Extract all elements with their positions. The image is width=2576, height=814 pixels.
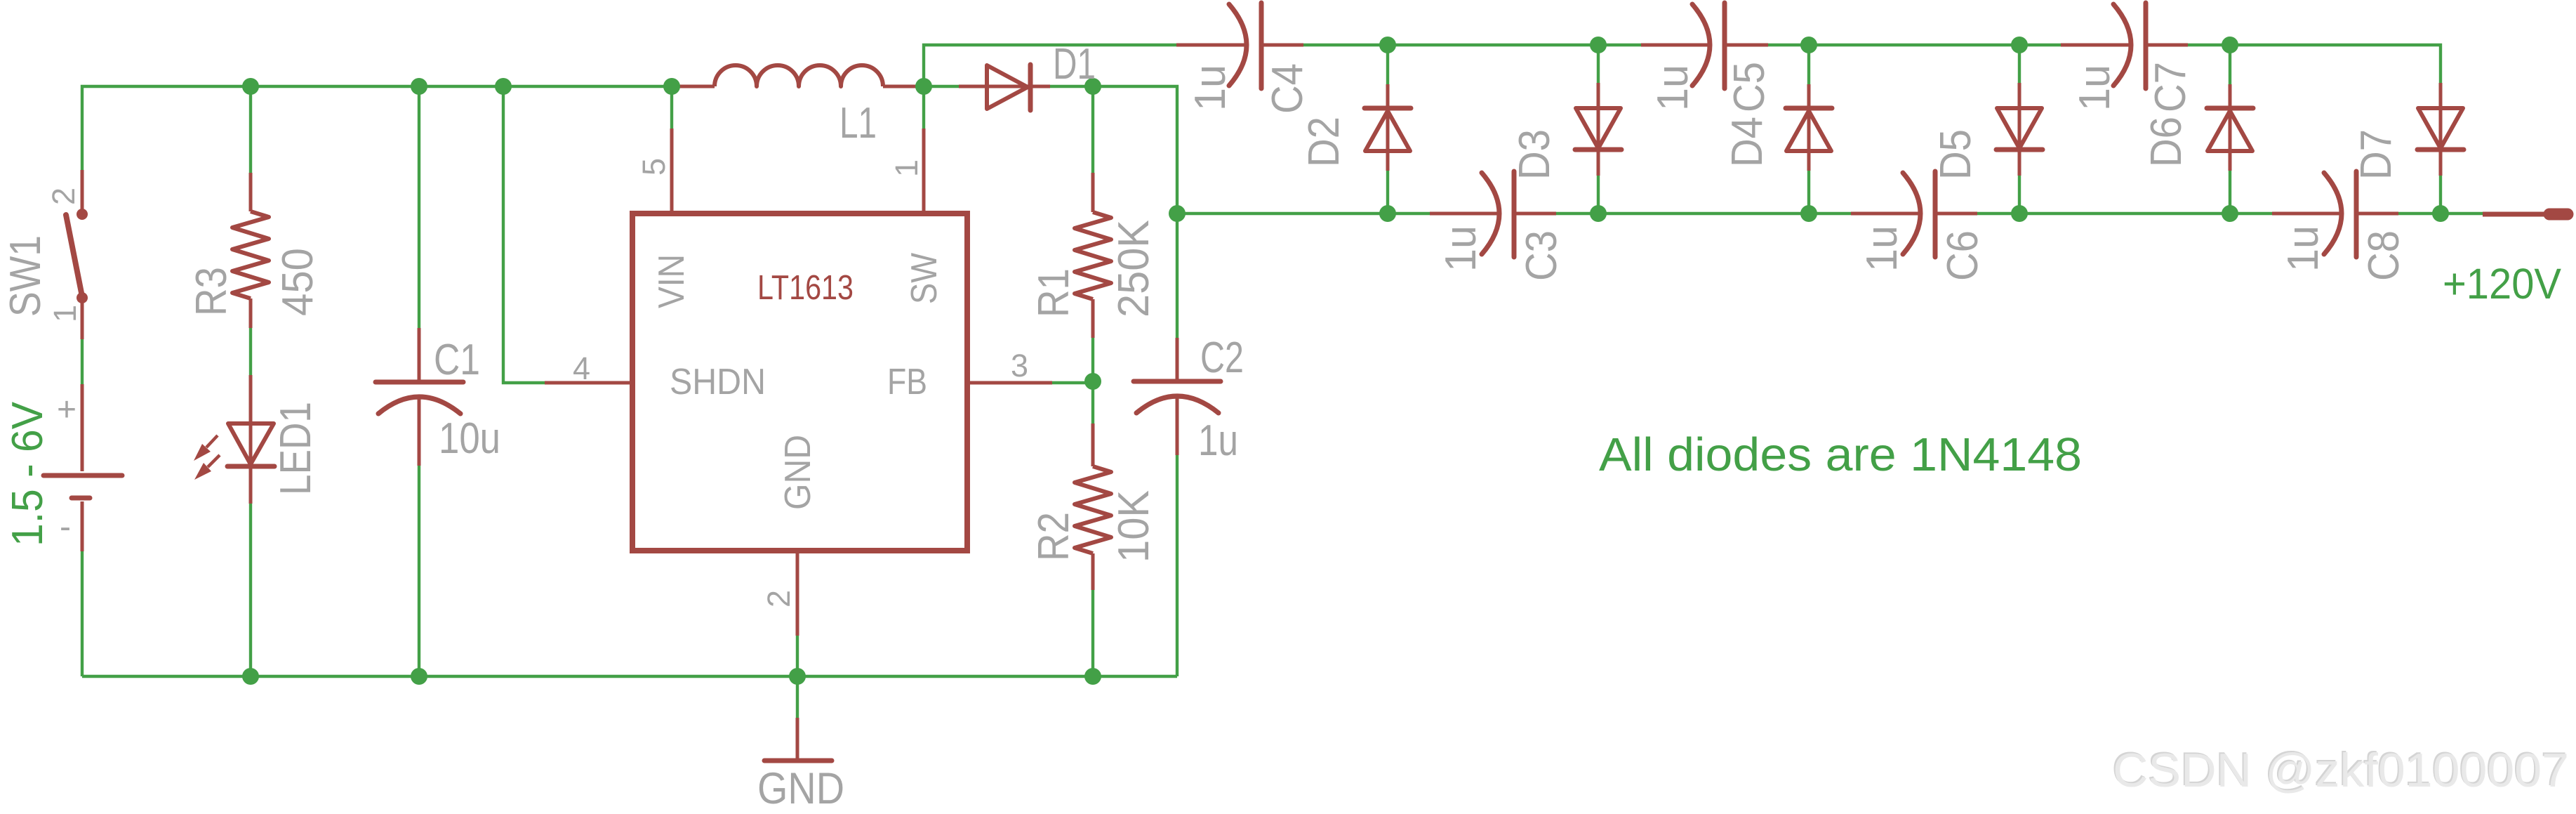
svg-text:1u: 1u (1649, 65, 1697, 111)
wire C2 bottom (1176, 455, 1179, 676)
pin lead battery plus (81, 384, 84, 471)
wire top rail segment n2 (1303, 44, 1641, 46)
pin lead C3 right (1514, 212, 1556, 216)
node D2 anode junction (1379, 205, 1396, 222)
wire pin2 to bottom rail (796, 636, 799, 676)
node D5 anode junction (2011, 37, 2028, 53)
capacitor C1 (376, 382, 463, 414)
svg-text:5: 5 (636, 158, 672, 176)
pin lead C8 right (2356, 212, 2398, 216)
diode D6 (2207, 108, 2253, 151)
pin lead D2 (1386, 84, 1390, 171)
pin lead GND symbol (796, 718, 799, 761)
pin lead C8 left (2272, 212, 2342, 216)
diode D3 (1575, 108, 1621, 150)
wire R3 top (249, 86, 252, 173)
svg-text:10u: 10u (439, 414, 500, 463)
wire GND bottom rail (82, 675, 1177, 678)
wire mid rail segment m3 (1977, 212, 2272, 215)
node D3 cathode junction (1590, 205, 1607, 222)
op-amp U1 LT1613 box (632, 214, 967, 551)
pin lead SW1 pin1 (81, 298, 84, 339)
capacitor C3 (1482, 171, 1514, 257)
resistor R3 (232, 211, 269, 298)
svg-text:250K: 250K (1110, 220, 1158, 317)
wire D1 cathode node (1050, 86, 1177, 338)
wire SW node to D1 (924, 85, 959, 88)
node SHDN riser junction (495, 78, 512, 95)
wire ladder top riser (924, 45, 1176, 86)
svg-text:2: 2 (46, 188, 81, 205)
svg-text:1u: 1u (1198, 416, 1238, 465)
ground (764, 759, 832, 763)
pin lead C7 left (2061, 44, 2131, 47)
wire mid rail segment m4 (2398, 212, 2483, 215)
wire D4 top (1807, 45, 1810, 84)
node FB junction (1084, 373, 1101, 390)
svg-text:FB: FB (887, 362, 927, 402)
svg-text:SW1: SW1 (1, 235, 50, 317)
pin lead C7 right (2146, 44, 2188, 47)
diode D1 (987, 65, 1030, 110)
svg-text:C8: C8 (2360, 230, 2408, 281)
node SW pin junction (915, 78, 932, 95)
pin lead R2 bottom (1091, 553, 1095, 590)
svg-text:10K: 10K (1110, 490, 1158, 563)
node D4 anode junction (1800, 205, 1817, 222)
pin lead D3 (1597, 83, 1600, 176)
node R3 top junction (242, 78, 259, 95)
pin lead C5 right (1725, 44, 1768, 47)
wire GND symbol stub (796, 676, 799, 718)
switch SW1 (66, 209, 88, 303)
pin lead D5 (2018, 83, 2021, 176)
svg-text:GND: GND (757, 764, 844, 813)
svg-text:C4: C4 (1263, 63, 1312, 114)
wire VIN top rail (82, 86, 672, 170)
svg-text:VIN: VIN (651, 254, 692, 308)
node R2 bottom junction (1084, 668, 1101, 685)
svg-text:1: 1 (47, 305, 83, 322)
svg-text:C2: C2 (1200, 334, 1244, 382)
node output terminal (2549, 209, 2568, 221)
pin lead R1 bottom (1091, 299, 1095, 338)
wire pin1 stub (922, 86, 925, 129)
node VIN pin junction (663, 78, 680, 95)
wire FB stub (1052, 381, 1093, 384)
pin lead SW1 pin2 (81, 170, 84, 214)
pin lead R2 top (1091, 424, 1095, 466)
pin lead C3 left (1430, 212, 1499, 216)
svg-text:450: 450 (274, 248, 322, 316)
wire top rail segment n3 (1768, 44, 2061, 46)
svg-text:R3: R3 (187, 267, 236, 316)
wire C1 top (418, 86, 420, 328)
wire R1 to FB node (1091, 338, 1094, 424)
wire D5 bottom (2018, 176, 2021, 214)
pin lead C6 left (1851, 212, 1920, 216)
svg-text:1u: 1u (1858, 225, 1906, 272)
wire C1 bottom (418, 466, 420, 676)
wire D2 top (1386, 45, 1389, 84)
svg-text:C6: C6 (1939, 230, 1987, 281)
svg-text:C1: C1 (434, 336, 480, 384)
svg-text:LT1613: LT1613 (757, 269, 854, 307)
wire SW1 to battery (81, 339, 84, 384)
node D7 cathode junction (2432, 205, 2449, 222)
resistor R2 (1075, 466, 1111, 553)
svg-text:2: 2 (761, 590, 797, 608)
wire D3 bottom (1597, 176, 1600, 214)
svg-text:D6: D6 (2142, 117, 2191, 167)
wire D7 bottom (2439, 176, 2442, 214)
wire D2 bottom (1386, 171, 1389, 214)
svg-text:1u: 1u (2071, 65, 2119, 111)
svg-text:1u: 1u (1186, 65, 1235, 111)
pin lead D6 (2229, 84, 2232, 171)
node LED1 bottom junction (242, 668, 259, 685)
battery B1 (44, 475, 122, 498)
pin lead U1 pin3 FB (970, 381, 1052, 385)
svg-text:R1: R1 (1030, 268, 1078, 317)
wire D3 top (1597, 45, 1600, 83)
pin lead C4 right (1261, 44, 1303, 47)
pin lead C4 left (1176, 44, 1247, 47)
pin lead C6 right (1935, 212, 1977, 216)
pin lead C2 bottom (1176, 397, 1179, 455)
svg-text:+: + (57, 391, 77, 428)
capacitor C2 (1134, 381, 1221, 413)
pin lead U1 pin4 SHDN (545, 381, 632, 385)
capacitor C8 (2324, 171, 2356, 257)
node C1 top junction (411, 78, 427, 95)
svg-text:+120V: +120V (2443, 260, 2561, 308)
svg-text:CSDN @zkf0100007: CSDN @zkf0100007 (2113, 744, 2569, 797)
svg-text:4: 4 (573, 350, 590, 386)
node D5 cathode junction (2011, 205, 2028, 222)
pin lead D7 (2439, 83, 2443, 176)
wire pin5 stub (670, 86, 673, 129)
pin lead R3 top (249, 173, 253, 211)
pin lead U1 pin1 SW (922, 129, 926, 214)
node D1 cathode junction (1084, 78, 1101, 95)
node D2 cathode junction (1379, 37, 1396, 53)
capacitor C7 (2113, 3, 2146, 88)
node GND junction (789, 668, 806, 685)
pin lead C1 bottom (418, 396, 421, 466)
pin lead C5 left (1641, 44, 1711, 47)
wire battery minus to bottom rail (81, 551, 84, 676)
wire D5 top (2018, 45, 2021, 83)
svg-text:-: - (60, 508, 71, 546)
svg-text:D2: D2 (1300, 117, 1348, 167)
wire LED1 to bottom rail (249, 504, 252, 676)
svg-text:D4: D4 (1723, 117, 1772, 167)
node D3 anode junction (1590, 37, 1607, 53)
node C2 top junction (1169, 205, 1186, 222)
svg-text:L1: L1 (839, 99, 877, 147)
svg-text:D7: D7 (2352, 129, 2401, 180)
pin lead C1 top (418, 328, 421, 382)
wire R3 to LED1 (249, 328, 252, 375)
node D6 cathode junction (2222, 37, 2238, 53)
svg-text:R2: R2 (1030, 512, 1078, 561)
diode D7 (2417, 108, 2464, 150)
wire R2 bottom (1091, 590, 1094, 676)
diode D5 (1996, 108, 2043, 150)
svg-text:All diodes are 1N4148: All diodes are 1N4148 (1599, 428, 2082, 481)
pin lead U1 pin5 VIN (670, 129, 674, 214)
pin lead U1 pin2 GND (796, 553, 799, 636)
pin lead battery minus (81, 501, 84, 551)
pin lead L1 right (883, 85, 924, 88)
capacitor C4 (1229, 3, 1261, 88)
svg-text:SHDN: SHDN (670, 362, 766, 402)
svg-text:1.5 - 6V: 1.5 - 6V (4, 401, 52, 546)
svg-text:D3: D3 (1511, 129, 1559, 180)
svg-text:1u: 1u (2279, 225, 2328, 272)
node D6 anode junction (2222, 205, 2238, 222)
svg-text:3: 3 (1011, 348, 1028, 383)
pin lead LED1 (249, 375, 253, 504)
pin lead L1 left (672, 85, 715, 88)
capacitor C5 (1692, 3, 1725, 88)
wire top rail segment n4 (2188, 45, 2441, 83)
wire D6 top (2229, 45, 2231, 84)
diode D4 (1786, 108, 1832, 151)
pin lead R3 bottom (249, 298, 253, 328)
wire R1 top (1091, 86, 1094, 173)
wire mid rail segment m2 (1556, 212, 1851, 215)
svg-text:SW: SW (904, 253, 945, 304)
wire D6 bottom (2229, 171, 2231, 214)
pin lead C2 top (1176, 338, 1179, 381)
svg-text:C7: C7 (2146, 62, 2195, 112)
svg-text:1: 1 (889, 159, 924, 177)
svg-text:1u: 1u (1437, 225, 1485, 272)
pin lead D1 (959, 85, 1050, 88)
wire SHDN riser (503, 86, 545, 383)
svg-text:C5: C5 (1725, 62, 1774, 112)
svg-text:C3: C3 (1518, 230, 1566, 281)
svg-text:LED1: LED1 (272, 402, 320, 495)
node C1 bottom junction (411, 668, 427, 685)
resistor R1 (1075, 212, 1111, 299)
svg-text:D5: D5 (1932, 129, 1980, 180)
pin lead R1 top (1091, 173, 1095, 212)
pin lead D4 (1807, 84, 1811, 171)
wire mid rail segment m1 (1177, 212, 1430, 215)
node D4 cathode junction (1800, 37, 1817, 53)
diode D2 (1365, 108, 1411, 151)
wire D4 bottom (1807, 171, 1810, 214)
svg-text:D1: D1 (1053, 40, 1096, 88)
LED LED1 (194, 424, 274, 480)
svg-text:GND: GND (778, 435, 818, 510)
inductor L1 (715, 65, 883, 86)
pin lead output (2483, 212, 2548, 217)
capacitor C6 (1903, 171, 1935, 257)
